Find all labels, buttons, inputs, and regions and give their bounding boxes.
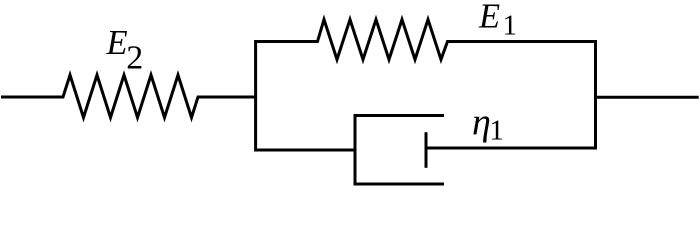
svg-text:E: E [106, 24, 128, 62]
svg-text:η: η [472, 101, 491, 143]
svg-text:E: E [478, 0, 500, 36]
svg-text:1: 1 [503, 10, 518, 42]
svg-text:2: 2 [126, 40, 143, 77]
svg-text:1: 1 [489, 115, 504, 147]
